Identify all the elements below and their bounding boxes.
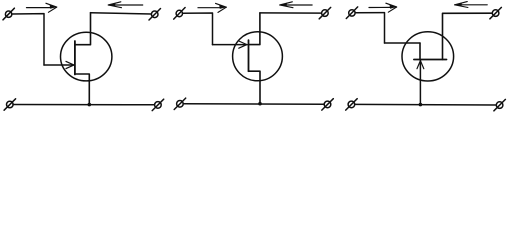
lower (drain) lead VT2 xyxy=(249,71,261,104)
wire: gate lead xyxy=(213,44,248,46)
gate arrowhead Q1 xyxy=(66,61,74,68)
output signal arrow xyxy=(108,2,142,8)
terminal (common, bottom-right) xyxy=(322,99,334,110)
drain lead VT3 xyxy=(443,13,493,59)
terminal (common, bottom-left) xyxy=(174,98,186,109)
input signal arrow xyxy=(27,3,57,12)
junction dot xyxy=(258,102,262,106)
wire: input terminal to gate corner xyxy=(12,14,44,65)
wire: source lead horizontal xyxy=(385,42,421,44)
wire: drain to output terminal xyxy=(91,13,152,14)
terminal (input, top-left) xyxy=(346,7,357,19)
transistor VT3 channel bar xyxy=(414,59,447,61)
gate arrowhead Q3 xyxy=(417,61,424,69)
gate arrowhead Q2 xyxy=(239,41,247,48)
input signal arrow xyxy=(198,3,226,12)
common rail wire xyxy=(183,103,324,106)
terminal (input, top-left) xyxy=(3,8,14,20)
gate lead VT3 (to common rail) xyxy=(419,61,421,105)
terminal (input, top-left) xyxy=(174,8,185,20)
transistor VT2 channel bar xyxy=(248,40,250,71)
upper (source) lead VT2 xyxy=(249,13,260,45)
transistor VT3 body circle xyxy=(402,32,454,81)
wire: input terminal to gate corner xyxy=(183,13,213,45)
source lead VT1 xyxy=(75,74,89,105)
terminal (common, bottom-right) xyxy=(494,99,506,110)
terminal (output, top-right) xyxy=(319,7,331,18)
common rail wire xyxy=(355,103,497,106)
common rail wire xyxy=(13,104,154,106)
terminal (output, top-right) xyxy=(149,9,161,21)
source lead drop VT3 xyxy=(419,43,421,60)
junction dot xyxy=(419,103,423,107)
terminal (output, top-right) xyxy=(490,7,502,18)
output signal arrow xyxy=(280,2,312,8)
transistor VT1 body circle xyxy=(60,32,111,81)
input signal arrow xyxy=(369,3,397,12)
junction dot xyxy=(88,103,92,107)
terminal (common, bottom-left) xyxy=(346,99,358,110)
terminal (common, bottom-right) xyxy=(152,99,164,110)
wire: input terminal to source corner xyxy=(355,13,384,43)
output signal arrow xyxy=(455,2,488,8)
drain lead VT1 xyxy=(75,13,91,45)
transistor VT2 body circle xyxy=(233,32,283,81)
terminal (common, bottom-left) xyxy=(4,99,16,110)
transistor VT1 channel bar xyxy=(74,41,76,75)
wire: gate lead xyxy=(44,64,74,66)
wire: upper lead to output terminal xyxy=(260,12,322,14)
